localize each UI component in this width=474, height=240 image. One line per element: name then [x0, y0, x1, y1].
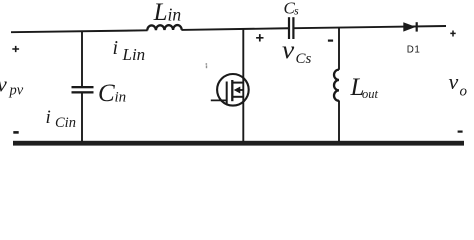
label tiny artifact i — [206, 63, 208, 68]
svg-text:Lin: Lin — [122, 45, 146, 64]
svg-text:in: in — [115, 90, 127, 106]
inductor Lout — [334, 70, 339, 101]
svg-text:o: o — [460, 84, 468, 100]
label - output port — [458, 131, 463, 133]
capacitor Cs — [288, 17, 295, 39]
svg-text:D1: D1 — [407, 45, 421, 56]
svg-text:Cin: Cin — [55, 115, 76, 131]
wire Lout branch upper — [338, 27, 340, 69]
label - input port — [13, 131, 18, 134]
wire top rail middle segment — [181, 28, 288, 30]
wire gate lead — [211, 99, 227, 101]
label - of v_Cs — [328, 39, 333, 41]
svg-text:out: out — [362, 87, 379, 101]
wire input branch upper — [81, 31, 83, 86]
svg-text:in: in — [168, 5, 182, 25]
svg-text:pv: pv — [9, 83, 24, 99]
label + output port — [450, 31, 455, 37]
capacitor Cin — [72, 86, 94, 94]
svg-text:s: s — [294, 4, 299, 18]
wire MOSFET branch (drain to source, full vertical) — [242, 29, 244, 142]
svg-text:v: v — [282, 37, 295, 64]
svg-text:Cs: Cs — [296, 51, 312, 67]
wire top rail left segment — [11, 30, 148, 32]
svg-text:i: i — [46, 107, 51, 128]
diode D1 — [403, 22, 418, 31]
svg-text:L: L — [153, 0, 168, 26]
label + of v_Cs — [256, 34, 263, 41]
label + input port — [12, 46, 19, 52]
wire input branch lower — [81, 93, 83, 142]
svg-text:C: C — [98, 80, 115, 107]
svg-text:v: v — [449, 69, 459, 94]
wire Lout branch lower — [338, 100, 340, 142]
svg-text:v: v — [0, 72, 7, 97]
wire bottom rail — [13, 141, 464, 146]
inductor Lin — [147, 25, 181, 30]
transistor Q1 (MOSFET in circle) — [217, 74, 249, 106]
wire top rail right segment — [295, 26, 447, 28]
svg-text:i: i — [113, 37, 119, 59]
